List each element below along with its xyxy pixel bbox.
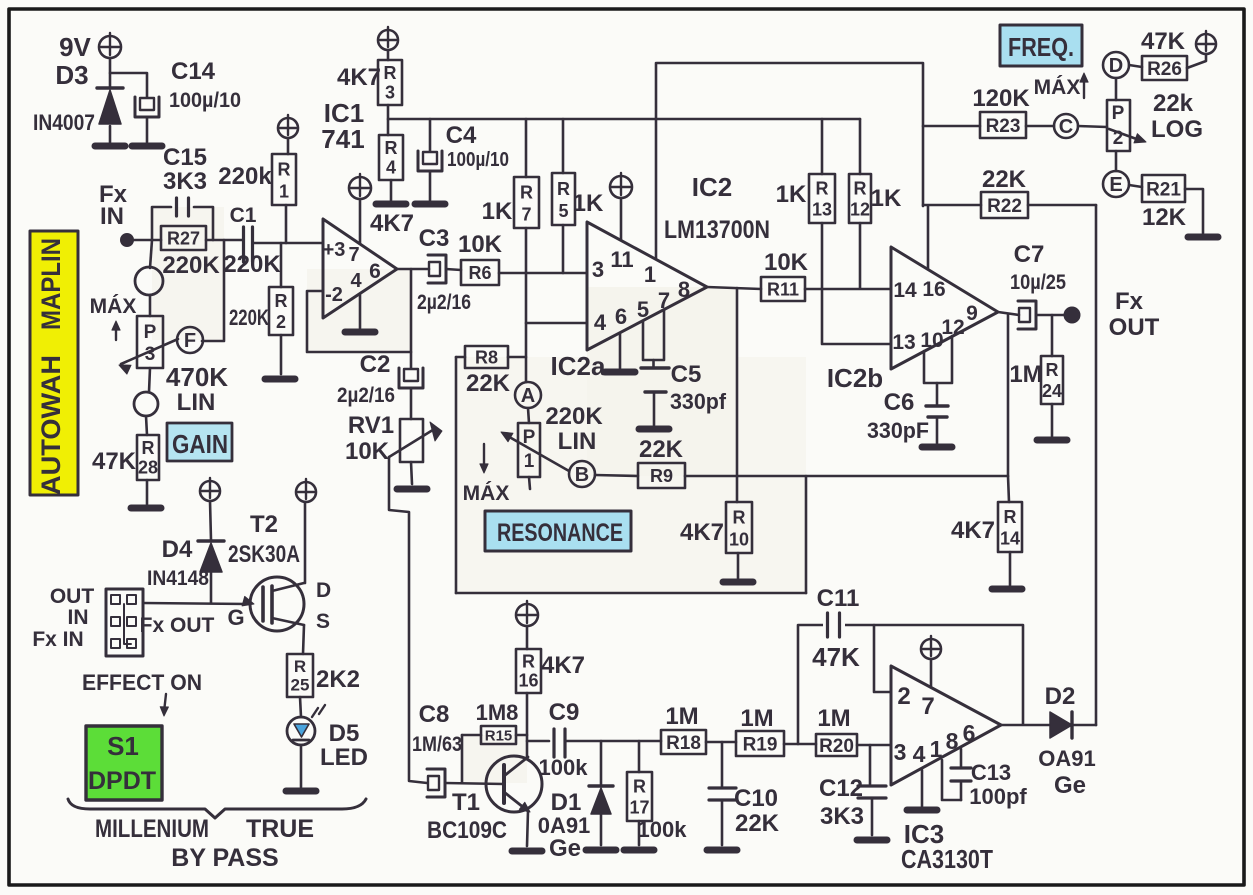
svg-text:R: R (385, 138, 398, 158)
resistor R15 (462, 700, 527, 744)
ground (639, 426, 669, 433)
wire to R22 (923, 204, 981, 207)
wire (1072, 724, 1096, 727)
wire (821, 223, 824, 289)
wire pins 5,7 (643, 310, 664, 366)
svg-text:220K: 220K (223, 251, 281, 278)
svg-text:24: 24 (1042, 381, 1062, 401)
svg-text:OUT: OUT (1109, 314, 1160, 341)
wire P1 stub (529, 477, 530, 489)
ground (95, 143, 125, 150)
svg-text:MÁX: MÁX (463, 482, 510, 505)
node A (515, 382, 541, 408)
resistor R16 (516, 649, 585, 693)
wire (1001, 724, 1050, 727)
resistor R19 (736, 705, 784, 756)
wire (706, 741, 736, 744)
wire IC2a out (707, 287, 761, 289)
svg-text:-2: -2 (325, 284, 343, 306)
resistor R24 (1009, 356, 1063, 404)
wire (461, 735, 464, 783)
svg-text:7: 7 (921, 693, 934, 720)
resistor R21 (1142, 175, 1187, 231)
svg-text:R: R (1046, 360, 1059, 380)
svg-text:100µ/10: 100µ/10 (447, 149, 509, 171)
svg-text:BC109C: BC109C (427, 817, 507, 844)
svg-text:MILLENIUM: MILLENIUM (95, 815, 209, 843)
svg-text:D5: D5 (329, 720, 360, 747)
svg-text:1K: 1K (573, 190, 604, 217)
wire (210, 572, 213, 603)
wire output (397, 268, 429, 271)
svg-text:1M: 1M (817, 705, 850, 732)
svg-text:47K: 47K (1141, 28, 1186, 55)
svg-text:R9: R9 (650, 466, 673, 486)
svg-text:B: B (575, 464, 589, 486)
svg-text:IC2: IC2 (692, 172, 732, 202)
node E (1103, 171, 1129, 197)
wire (805, 288, 891, 291)
resistor R26 (1141, 28, 1187, 80)
node Fx IN terminal (121, 234, 134, 247)
svg-text:P: P (1112, 103, 1125, 124)
ground (1188, 234, 1218, 241)
svg-text:100k: 100k (539, 755, 589, 780)
svg-text:C15: C15 (163, 144, 207, 171)
svg-text:MÁX: MÁX (90, 295, 137, 318)
svg-text:R: R (278, 159, 291, 179)
svg-text:Ge: Ge (1054, 772, 1086, 799)
svg-text:1K: 1K (776, 181, 807, 208)
svg-text:IC2b: IC2b (827, 363, 883, 393)
wire (1051, 404, 1054, 436)
svg-text:IC2a: IC2a (551, 351, 606, 381)
svg-text:3: 3 (592, 257, 604, 282)
jack ring (134, 392, 158, 416)
wire pin6 ground (605, 333, 635, 372)
svg-text:16: 16 (518, 670, 538, 690)
resistor R3 (337, 60, 402, 105)
capacitor C5 (641, 361, 727, 425)
svg-text:1: 1 (644, 262, 656, 287)
svg-text:D1: D1 (551, 789, 582, 816)
wire (1115, 151, 1118, 171)
wire envelope to D2 (1095, 205, 1098, 725)
wire (387, 105, 390, 135)
svg-text:220k: 220k (218, 163, 272, 190)
svg-text:28: 28 (138, 457, 158, 477)
svg-text:D: D (1109, 55, 1123, 77)
resistor R4 (379, 135, 403, 180)
brace (68, 799, 366, 818)
svg-text:C4: C4 (446, 122, 477, 149)
ground (265, 376, 295, 383)
svg-text:R: R (557, 179, 570, 199)
resistor R6 (458, 231, 503, 285)
svg-text:7: 7 (348, 244, 359, 266)
wire (1129, 65, 1142, 67)
svg-text:220K: 220K (229, 305, 269, 330)
wire (149, 368, 150, 392)
svg-text:C7: C7 (1014, 241, 1045, 268)
wire F to input (202, 240, 224, 341)
svg-text:10K: 10K (764, 249, 809, 276)
resistor R25 (287, 654, 360, 697)
transistor T2 (228, 511, 331, 633)
svg-text:1K: 1K (871, 185, 902, 212)
wire (149, 295, 152, 316)
svg-text:17: 17 (629, 798, 649, 818)
wire (109, 126, 112, 142)
svg-text:Fx: Fx (1115, 288, 1144, 315)
svg-text:OUT: OUT (50, 585, 95, 608)
svg-text:8: 8 (678, 277, 690, 302)
svg-text:330pF: 330pF (867, 418, 929, 443)
wire (150, 240, 152, 268)
svg-text:C1: C1 (230, 204, 257, 227)
svg-text:FREQ.: FREQ. (1008, 32, 1074, 62)
wire (280, 243, 283, 287)
svg-text:2µ2/16: 2µ2/16 (337, 384, 395, 407)
wire (210, 501, 211, 540)
wire (1051, 315, 1054, 356)
node B (569, 461, 595, 487)
svg-text:6: 6 (369, 260, 381, 283)
svg-text:12K: 12K (1142, 204, 1187, 231)
svg-text:R21: R21 (1146, 179, 1181, 200)
wire (287, 138, 290, 154)
wire (1129, 185, 1142, 187)
led D5 (287, 705, 368, 771)
power +V (200, 478, 220, 501)
wire (857, 744, 891, 747)
power +V (1196, 31, 1216, 54)
transistor T1 (427, 756, 542, 846)
wire (1185, 189, 1203, 233)
label MAX (463, 444, 510, 505)
svg-text:R27: R27 (167, 228, 200, 248)
power +V (278, 115, 298, 138)
svg-text:LIN: LIN (177, 389, 216, 416)
svg-text:1: 1 (524, 451, 535, 472)
svg-text:8: 8 (946, 728, 959, 754)
svg-text:47K: 47K (812, 642, 860, 672)
svg-text:TRUE: TRUE (246, 815, 314, 843)
svg-text:14: 14 (1000, 529, 1020, 549)
label MILLENIUM TRUE (95, 815, 314, 843)
svg-text:R15: R15 (485, 727, 513, 744)
wire pin7 (359, 199, 362, 243)
resistor R11 (761, 249, 809, 301)
svg-text:R: R (520, 182, 533, 202)
label Fx OUT (1109, 288, 1160, 341)
svg-text:1: 1 (279, 181, 289, 201)
wire pin13 loop (822, 289, 891, 344)
svg-text:3: 3 (894, 739, 907, 765)
ground (707, 847, 737, 854)
wire (456, 592, 806, 595)
ground (586, 847, 616, 854)
wire (930, 659, 933, 686)
label GAIN (167, 423, 232, 461)
wire pin11 (620, 198, 623, 240)
capacitor C9 (539, 699, 589, 780)
svg-text:C6: C6 (884, 389, 915, 416)
ground (1037, 437, 1067, 444)
label MAX (1034, 73, 1088, 99)
svg-text:C14: C14 (171, 58, 216, 85)
svg-text:C12: C12 (819, 775, 863, 802)
svg-text:R: R (733, 507, 746, 527)
power +V (296, 479, 316, 502)
svg-text:OA91: OA91 (1038, 746, 1095, 771)
svg-text:9: 9 (966, 302, 978, 325)
svg-text:1: 1 (930, 736, 943, 762)
svg-text:6: 6 (615, 304, 627, 329)
svg-text:10: 10 (729, 529, 749, 549)
ground (132, 143, 162, 150)
wire (133, 239, 161, 242)
wire (1036, 314, 1064, 317)
label Fx OUT (140, 614, 215, 637)
resistor R5 (552, 119, 604, 225)
capacitor C8 (412, 701, 462, 797)
resistor R22 (981, 166, 1028, 218)
svg-text:5: 5 (558, 201, 568, 221)
label 4K7 (370, 210, 414, 237)
wire (528, 408, 529, 423)
paper tint patches (152, 207, 806, 783)
svg-text:LED: LED (320, 744, 368, 771)
wire (805, 476, 808, 593)
resistor R2 (229, 287, 293, 335)
connector pads (106, 589, 143, 656)
svg-text:RV1: RV1 (348, 412, 394, 439)
svg-text:13: 13 (892, 331, 915, 354)
wire (1007, 315, 1010, 476)
svg-text:100µ/10: 100µ/10 (169, 89, 241, 112)
wire (455, 357, 458, 593)
svg-text:120K: 120K (972, 85, 1030, 112)
wire source (303, 625, 304, 654)
svg-text:10K: 10K (458, 231, 503, 258)
svg-text:4K7: 4K7 (951, 517, 995, 544)
label OUT (50, 585, 95, 608)
wire to R23 (923, 125, 980, 128)
svg-text:9V: 9V (59, 32, 91, 62)
svg-text:4: 4 (913, 741, 926, 767)
ground (857, 837, 887, 844)
svg-text:MAPLIN: MAPLIN (36, 238, 66, 330)
svg-text:R: R (275, 291, 288, 311)
svg-text:MÁX: MÁX (1034, 76, 1081, 99)
wire (411, 462, 412, 484)
svg-text:3: 3 (385, 82, 395, 102)
ota IC2a (551, 172, 770, 381)
svg-text:47K: 47K (92, 448, 137, 475)
svg-text:R20: R20 (819, 736, 854, 757)
wire (638, 821, 641, 845)
svg-text:741: 741 (321, 124, 364, 154)
svg-text:LM13700N: LM13700N (664, 216, 770, 244)
resistor R17 (627, 741, 687, 842)
capacitor C12 (819, 745, 886, 835)
capacitor C10 (709, 742, 780, 845)
svg-text:R19: R19 (743, 734, 778, 755)
svg-text:R26: R26 (1147, 59, 1182, 80)
diode D4 (147, 536, 224, 590)
capacitor C7 (1010, 241, 1066, 329)
ground (131, 505, 161, 512)
resistor R20 (816, 705, 857, 757)
wire (387, 50, 390, 60)
wire pin2 (874, 625, 891, 692)
ground (922, 444, 952, 451)
svg-text:IN4007: IN4007 (33, 110, 95, 135)
svg-text:IN: IN (68, 606, 89, 629)
resistor R9 (638, 436, 685, 488)
wire (737, 553, 740, 578)
wire Iabc bus (657, 63, 923, 206)
op-amp IC1 (321, 98, 397, 318)
ground (512, 848, 542, 855)
svg-text:LIN: LIN (558, 428, 597, 455)
wire collector (526, 693, 529, 757)
resistor R18 (661, 703, 706, 754)
svg-text:100pf: 100pf (969, 784, 1027, 809)
svg-text:R: R (142, 438, 155, 458)
svg-text:A: A (521, 385, 535, 407)
svg-text:P: P (144, 322, 157, 343)
power +V (610, 173, 632, 198)
power +V (349, 174, 371, 199)
ground (624, 847, 654, 854)
svg-text:E: E (1109, 174, 1122, 196)
svg-text:D3: D3 (55, 60, 88, 90)
resistor R23 (972, 85, 1030, 138)
svg-text:D4: D4 (162, 536, 193, 563)
power +V (921, 636, 941, 659)
svg-text:1M: 1M (740, 705, 773, 732)
svg-text:2µ2/16: 2µ2/16 (417, 291, 471, 314)
svg-text:T1: T1 (452, 789, 480, 816)
potentiometer P3 (119, 316, 228, 416)
svg-text:EFFECT ON: EFFECT ON (82, 670, 202, 695)
capacitor C14 (135, 58, 241, 117)
jack ring (135, 267, 163, 295)
potentiometer P1 (501, 403, 603, 477)
diode D1 (538, 741, 613, 862)
label IN (68, 606, 89, 629)
resistor R1 (218, 154, 296, 205)
svg-text:4K7: 4K7 (680, 519, 724, 546)
svg-text:R8: R8 (475, 347, 498, 367)
wire R7 node chain (525, 228, 528, 382)
wire (110, 58, 147, 97)
svg-text:LOG: LOG (1151, 116, 1203, 143)
wire (146, 117, 149, 142)
svg-text:D2: D2 (1045, 683, 1076, 710)
resistor R13 (776, 119, 835, 223)
svg-text:AUTOWAH: AUTOWAH (36, 355, 66, 495)
label AUTOWAH MAPLIN (30, 231, 78, 495)
wire RV1 wiper run (389, 457, 427, 783)
capacitor C3 (417, 225, 471, 314)
wire (146, 416, 147, 435)
power +V (516, 601, 538, 626)
svg-text:13: 13 (812, 200, 832, 220)
svg-text:22K: 22K (466, 370, 511, 397)
node F (177, 327, 203, 353)
wire (285, 205, 288, 243)
svg-text:RESONANCE: RESONANCE (497, 519, 623, 547)
svg-text:330pf: 330pf (670, 389, 727, 414)
capacitor C2 (337, 351, 423, 407)
capacitor C11 (812, 585, 860, 672)
ground (992, 586, 1022, 593)
svg-text:4K7: 4K7 (337, 64, 381, 91)
wire (499, 272, 587, 275)
wire pin1 (655, 63, 658, 258)
svg-text:4: 4 (594, 310, 607, 335)
wire (446, 269, 461, 270)
wire (508, 356, 526, 359)
label Fx IN (32, 628, 83, 651)
wire (253, 242, 323, 245)
svg-text:4: 4 (350, 270, 362, 292)
svg-text:25: 25 (291, 676, 310, 695)
wire (784, 743, 816, 746)
svg-text:1M: 1M (665, 703, 698, 730)
capacitor C1 (223, 204, 281, 278)
svg-text:2: 2 (897, 683, 910, 710)
svg-text:R11: R11 (767, 279, 799, 299)
wire pin16 (927, 206, 930, 269)
svg-text:Fx OUT: Fx OUT (140, 614, 215, 637)
svg-text:14: 14 (893, 279, 917, 302)
resistor R10 (680, 502, 752, 553)
svg-text:22K: 22K (639, 436, 684, 463)
wire pin4 ground (345, 295, 375, 332)
svg-text:4K7: 4K7 (370, 210, 414, 237)
svg-text:22K: 22K (735, 810, 780, 837)
resistor R8 (456, 346, 511, 397)
svg-text:S1: S1 (107, 731, 139, 761)
wire (526, 626, 529, 649)
ota IC2b (827, 247, 998, 393)
capacitor C15 (152, 144, 213, 240)
svg-text:3: 3 (145, 344, 156, 365)
svg-text:BY PASS: BY PASS (171, 844, 278, 872)
svg-text:R: R (1004, 507, 1017, 527)
svg-text:Ge: Ge (549, 835, 581, 862)
resistor R7 (482, 119, 539, 228)
label RESONANCE (485, 511, 631, 551)
svg-text:T2: T2 (250, 511, 278, 538)
svg-text:C5: C5 (671, 361, 702, 388)
wire gate (143, 596, 254, 630)
svg-text:1M/63: 1M/63 (412, 733, 462, 756)
wire (1008, 476, 1009, 502)
wire (280, 335, 283, 374)
svg-text:DPDT: DPDT (88, 767, 156, 795)
svg-text:7: 7 (521, 204, 531, 224)
svg-text:G: G (227, 605, 244, 630)
svg-text:4K7: 4K7 (541, 652, 585, 679)
svg-text:C2: C2 (360, 351, 391, 378)
capacitor C13 (942, 749, 1027, 809)
svg-text:R22: R22 (987, 196, 1022, 217)
